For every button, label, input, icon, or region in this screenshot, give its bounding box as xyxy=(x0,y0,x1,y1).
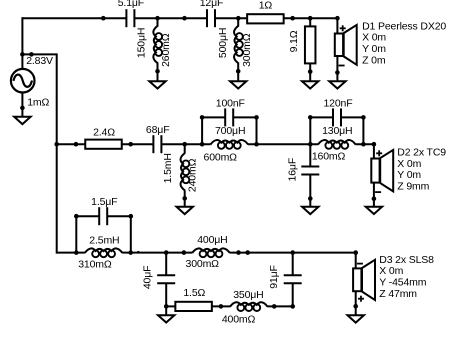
svg-text:X 0m: X 0m xyxy=(379,265,403,277)
label 600mOhm xyxy=(204,151,238,163)
label 9.1ohm xyxy=(288,30,300,52)
svg-text:300mΩ: 300mΩ xyxy=(186,258,220,270)
label 120nF xyxy=(323,97,352,109)
wire 40uF stem top xyxy=(165,253,167,276)
svg-text:Z 9mm: Z 9mm xyxy=(397,181,429,193)
capacitor 16uF xyxy=(301,167,319,175)
label 700uH xyxy=(215,125,245,137)
speaker D1 xyxy=(335,25,357,66)
wire 16uF stem bottom xyxy=(309,175,311,207)
junction mid rail 2 xyxy=(74,142,79,147)
label 150uH xyxy=(136,28,148,58)
junction D1 gnd xyxy=(335,70,340,75)
capacitor 12uF xyxy=(207,9,215,27)
inductor 350uH 400mOhm xyxy=(230,302,268,311)
label 400mOhm xyxy=(222,313,256,325)
label 1ohm xyxy=(259,0,273,12)
wire 16uF stem top xyxy=(309,144,311,166)
svg-text:130μH: 130μH xyxy=(322,125,352,137)
wire 500uH stem bottom xyxy=(237,63,239,82)
svg-text:2.83V: 2.83V xyxy=(26,55,53,67)
junction mid rail 4 xyxy=(182,142,187,147)
svg-text:400mΩ: 400mΩ xyxy=(222,313,256,325)
wire 150uH stem bottom xyxy=(157,63,159,82)
label D1 line2 xyxy=(362,32,386,44)
capacitor 5.1uF xyxy=(126,9,134,27)
junction 1.5mH gnd xyxy=(182,196,187,201)
svg-text:1Ω: 1Ω xyxy=(259,0,273,12)
wire 1.5uF block left stub xyxy=(75,216,77,252)
wire mid rail segment 4 xyxy=(356,143,374,145)
label 500uH xyxy=(217,28,229,58)
label D2 line1 xyxy=(397,146,446,158)
wire 91uF stem top xyxy=(292,253,294,276)
wire top rail segment 3 xyxy=(215,17,337,19)
junction mid rail 9 xyxy=(372,142,377,147)
label D3 line1 xyxy=(379,254,434,266)
label D1 line1 xyxy=(362,20,446,32)
junction bottom rail 7 xyxy=(290,250,295,255)
svg-text:350μH: 350μH xyxy=(233,289,263,301)
junction 500uH gnd xyxy=(236,69,241,74)
wire 120nF branch right xyxy=(341,116,364,118)
ground below 16uF xyxy=(302,207,318,214)
resistor 9.1ohm xyxy=(305,26,316,63)
speaker D3 inverted xyxy=(353,260,375,302)
wire 100nF branch left xyxy=(201,116,225,118)
wire 91uF stem xyxy=(292,283,294,306)
wire 150uH stem top xyxy=(157,18,159,26)
wire 9.1ohm stem bottom xyxy=(309,63,311,81)
wire mid rail segment 2 xyxy=(161,143,210,145)
svg-text:2.5mH: 2.5mH xyxy=(89,235,119,247)
ground below D2 xyxy=(366,207,382,214)
svg-text:X 0m: X 0m xyxy=(362,32,386,44)
inductor 400uH 300mOhm xyxy=(192,248,230,257)
junction 9.1ohm gnd xyxy=(308,69,313,74)
svg-text:Y -454mm: Y -454mm xyxy=(379,277,426,289)
svg-text:Z 47mm: Z 47mm xyxy=(379,288,417,300)
ground below D1 xyxy=(329,81,345,88)
svg-text:500μH: 500μH xyxy=(217,28,229,58)
label 240mOhm xyxy=(187,158,199,192)
junction top rail 4 xyxy=(236,16,241,21)
capacitor 68uF xyxy=(153,135,161,153)
label 300mOhm xyxy=(241,33,253,67)
svg-text:160mΩ: 160mΩ xyxy=(312,150,346,162)
svg-text:2.4Ω: 2.4Ω xyxy=(93,127,115,139)
junction mid rail 8 xyxy=(361,142,366,147)
label D3 line4 xyxy=(379,288,417,300)
wire top rail segment 1 xyxy=(22,17,126,19)
junction source bottom xyxy=(20,106,25,111)
wire sub row mid xyxy=(211,305,230,307)
svg-text:D2 2x TC9: D2 2x TC9 xyxy=(397,146,446,158)
svg-text:Z 0m: Z 0m xyxy=(362,54,386,66)
junction 1.5uF branch left xyxy=(74,214,79,219)
junction 120nF branch right xyxy=(361,115,366,120)
resistor 1.5ohm xyxy=(175,302,212,311)
junction mid rail 3 xyxy=(128,142,133,147)
junction bottom rail 5 xyxy=(236,250,241,255)
label D2 line2 xyxy=(397,158,421,170)
junction sub row 3 xyxy=(272,304,277,309)
svg-text:1.5μF: 1.5μF xyxy=(91,196,117,208)
wire 1.5uF branch right xyxy=(107,215,132,217)
svg-text:40μF: 40μF xyxy=(142,266,154,290)
label 1.5ohm xyxy=(183,287,205,299)
svg-text:150μH: 150μH xyxy=(136,28,148,58)
wire sub row left xyxy=(166,305,176,307)
wire bottom rail segment 3 xyxy=(230,252,356,254)
ground below 40uF xyxy=(158,315,174,322)
label 310mOhm xyxy=(78,259,112,271)
wire D2 stem bottom xyxy=(373,183,375,207)
wire D2 stem top xyxy=(373,144,375,158)
resistor 2.4ohm xyxy=(85,140,122,149)
junction 100nF branch left xyxy=(200,115,205,120)
label D3 line2 xyxy=(379,265,403,277)
junction top rail 7 xyxy=(335,16,340,21)
label 1m&#937; xyxy=(27,97,49,109)
wire top rail segment 2 xyxy=(134,17,207,19)
junction 16uF gnd xyxy=(308,196,313,201)
wire mid rail segment 3 xyxy=(248,143,318,145)
wire 40uF gnd stem xyxy=(165,306,167,315)
wire source bottom lead xyxy=(21,93,23,117)
label 160mOhm xyxy=(312,150,346,162)
svg-text:D1 Peerless DX20: D1 Peerless DX20 xyxy=(362,20,446,32)
wire bottom rail segment 1 xyxy=(57,252,85,254)
capacitor 120nF xyxy=(333,108,341,126)
junction top rail 6 xyxy=(308,16,313,21)
label 2.83V xyxy=(26,55,53,67)
inductor 150uH 260mOhm xyxy=(153,26,162,64)
svg-text:100nF: 100nF xyxy=(216,97,245,109)
wire mid rail segment 1 xyxy=(57,143,154,145)
ground below 150uH xyxy=(149,81,165,88)
label 68uF xyxy=(146,124,170,136)
wire 100nF branch right xyxy=(233,116,257,118)
svg-text:120nF: 120nF xyxy=(323,97,352,109)
ground below D3 xyxy=(348,315,364,322)
wire D3 stem xyxy=(355,252,357,269)
junction top rail 3 xyxy=(182,16,187,21)
junction top rail 1 xyxy=(101,16,106,21)
wire 100nF block left stub xyxy=(201,117,203,144)
junction D2 gnd xyxy=(372,196,377,201)
svg-text:Y 0m: Y 0m xyxy=(362,43,386,55)
junction sub row 1 xyxy=(164,304,169,309)
svg-text:D3 2x SLS8: D3 2x SLS8 xyxy=(379,254,434,266)
svg-text:1mΩ: 1mΩ xyxy=(27,97,49,109)
capacitor 91uF xyxy=(284,275,302,283)
ground below 9.1ohm xyxy=(302,81,318,88)
label D2 line4 xyxy=(397,181,429,193)
junction 120nF branch left xyxy=(308,115,313,120)
junction top rail 5 xyxy=(290,16,295,21)
inductor 500uH 300mOhm xyxy=(234,26,243,64)
svg-text:Y 0m: Y 0m xyxy=(397,169,421,181)
svg-text:91μF: 91μF xyxy=(268,265,280,289)
junction mid rail 7 xyxy=(308,142,313,147)
svg-text:1.5Ω: 1.5Ω xyxy=(183,287,205,299)
junction D3 gnd xyxy=(353,304,358,309)
wire 1.5uF block right stub xyxy=(130,216,132,252)
voltage source V1 2.83V xyxy=(11,69,35,93)
wire bottom rail segment 2 xyxy=(122,252,192,254)
wire 40uF stem bottom xyxy=(165,283,167,306)
label 91uF xyxy=(268,265,280,289)
svg-text:300mΩ: 300mΩ xyxy=(241,33,253,67)
junction sub row 4 xyxy=(290,304,295,309)
wire 120nF block right stub xyxy=(362,117,364,144)
ground below 500uH xyxy=(230,81,246,88)
resistor 1ohm xyxy=(247,14,284,23)
speaker D2 xyxy=(371,150,393,192)
junction bottom rail 6 xyxy=(245,250,250,255)
wire main bus vertical xyxy=(56,53,58,253)
wire source-to-bus horizontal xyxy=(22,53,56,55)
wire source top stub down xyxy=(21,17,23,69)
svg-text:260mΩ: 260mΩ xyxy=(160,33,172,67)
wire 1.5uF branch left xyxy=(75,215,99,217)
label 350uH xyxy=(233,289,263,301)
label 300mOhm b xyxy=(186,258,220,270)
svg-text:16μF: 16μF xyxy=(286,158,298,182)
svg-text:68μF: 68μF xyxy=(146,124,170,136)
svg-text:310mΩ: 310mΩ xyxy=(78,259,112,271)
junction bottom rail 2 xyxy=(128,250,133,255)
wire sub row right xyxy=(267,305,292,307)
junction bottom rail 4 xyxy=(182,250,187,255)
svg-text:1.5mH: 1.5mH xyxy=(162,153,174,183)
junction 100nF branch right xyxy=(254,115,259,120)
inductor 2.5mH 310mOhm xyxy=(85,248,123,257)
ground below 1.5mH xyxy=(177,207,193,214)
junction 1.5uF branch right xyxy=(129,214,134,219)
capacitor 1.5uF xyxy=(99,207,107,225)
label D3 line3 xyxy=(379,277,426,289)
label 260mOhm xyxy=(160,33,172,67)
wire 9.1ohm stem top xyxy=(309,18,311,27)
wire 100nF block right stub xyxy=(256,117,258,144)
junction bottom rail small xyxy=(137,251,140,254)
svg-text:600mΩ: 600mΩ xyxy=(204,151,238,163)
wire D3 gnd stem xyxy=(355,291,357,315)
label 12uF xyxy=(200,0,224,9)
junction sub row 2 xyxy=(219,304,224,309)
label 130uH xyxy=(322,125,352,137)
label D1 line4 xyxy=(362,54,386,66)
junction top rail 2 xyxy=(155,16,160,21)
capacitor 100nF xyxy=(225,108,233,126)
svg-text:12μF: 12μF xyxy=(200,0,224,9)
junction bottom rail 3 xyxy=(164,250,169,255)
wire D1 stem top xyxy=(336,18,338,33)
junction source row 1 xyxy=(20,52,25,57)
label 100nF xyxy=(216,97,245,109)
ground below source xyxy=(14,117,30,124)
svg-text:5.1μF: 5.1μF xyxy=(118,0,144,9)
svg-text:9.1Ω: 9.1Ω xyxy=(288,30,300,52)
label 1.5mH xyxy=(162,153,174,183)
label 1.5uF xyxy=(91,196,117,208)
wire D1 stem bottom xyxy=(336,56,338,81)
label 2.5mH xyxy=(89,235,119,247)
junction bottom rail 1 xyxy=(74,250,79,255)
svg-text:700μH: 700μH xyxy=(215,125,245,137)
svg-text:400μH: 400μH xyxy=(197,234,227,246)
capacitor 40uF xyxy=(157,275,175,283)
label 16uF xyxy=(286,158,298,182)
label 5.1uF xyxy=(118,0,144,9)
junction source row 2 xyxy=(29,52,34,57)
inductor 130uH 160mOhm xyxy=(318,140,356,149)
inductor 1.5mH 240mOhm xyxy=(181,153,190,191)
wire 1.5mH stem bottom xyxy=(184,190,186,207)
wire 1.5mH stem xyxy=(184,144,186,153)
label 40uF xyxy=(142,266,154,290)
svg-text:240mΩ: 240mΩ xyxy=(187,158,199,192)
label 400uH xyxy=(197,234,227,246)
svg-text:X 0m: X 0m xyxy=(397,158,421,170)
junction mid rail 5 xyxy=(200,142,205,147)
junction mid rail 6 xyxy=(254,142,259,147)
junction 150uH gnd xyxy=(155,69,160,74)
junction mid rail 1 xyxy=(54,142,59,147)
junction D3 top corner xyxy=(353,250,358,255)
label D2 line3 xyxy=(397,169,421,181)
label D1 line3 xyxy=(362,43,386,55)
wire 120nF block left stub xyxy=(309,117,311,144)
label 2.4ohm xyxy=(93,127,115,139)
wire 120nF branch left xyxy=(309,116,333,118)
inductor 700uH 600mOhm xyxy=(211,140,249,149)
wire 500uH stem top xyxy=(237,18,239,26)
